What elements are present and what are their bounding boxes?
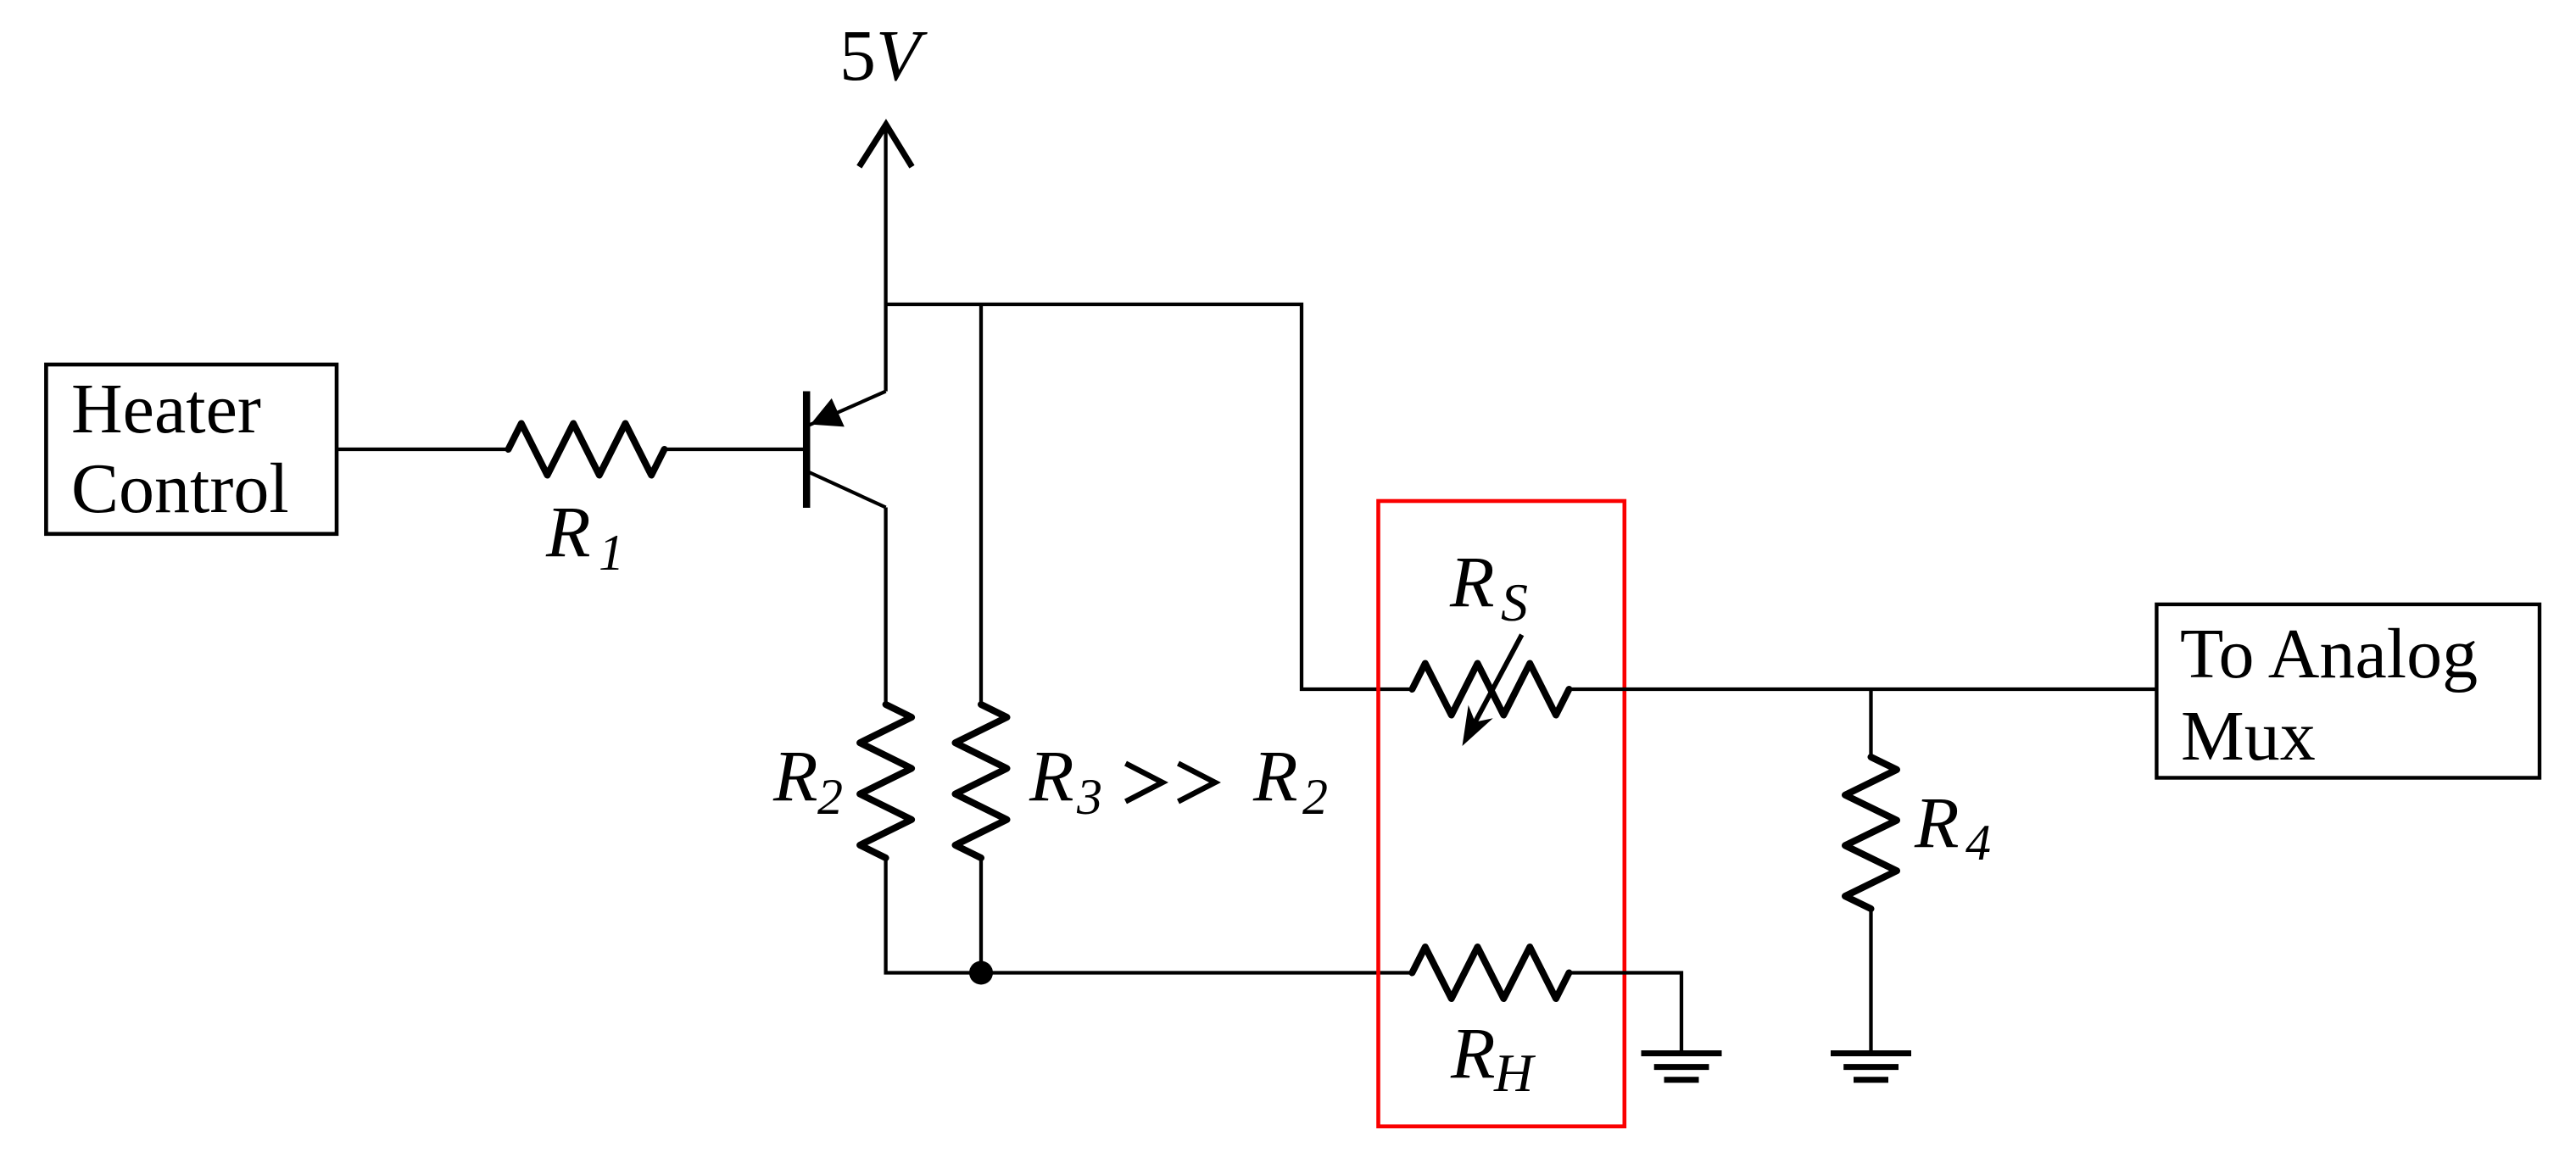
svg-text:Heater: Heater [71, 370, 261, 448]
wire box to R1 [337, 448, 509, 451]
To Analog Mux box [2156, 604, 2540, 778]
label >> chevrons [1126, 764, 1216, 802]
wire RS right to analog mux [1569, 688, 2156, 691]
node junction dot [969, 961, 993, 985]
svg-text:2: 2 [817, 769, 843, 825]
svg-text:R: R [772, 735, 818, 816]
svg-text:R: R [1450, 1012, 1496, 1094]
svg-text:Mux: Mux [2181, 697, 2316, 776]
svg-text:R: R [545, 491, 591, 572]
resistor RS (variable) [1412, 664, 1569, 715]
wire R3 bottom lead [979, 858, 983, 973]
Heater Control box [46, 365, 337, 534]
wire R4 bottom lead [1869, 909, 1872, 1050]
transistor Q1 collector diagonal [808, 472, 886, 508]
svg-text:S: S [1501, 572, 1528, 632]
ground (R4) [1831, 1054, 1911, 1080]
wire R2 bottom lead and bottom horizontal to RH [886, 858, 1413, 973]
red sensor outline box [1379, 501, 1625, 1127]
resistor RH [1412, 947, 1569, 999]
svg-text:To Analog: To Analog [2180, 615, 2478, 693]
transistor Q1 emitter arrow (PNP) [811, 398, 845, 427]
ground (RH) [1642, 1054, 1722, 1080]
resistor R3 [956, 704, 1007, 858]
power 5V supply arrow [859, 125, 912, 167]
resistor R2 [860, 704, 912, 858]
svg-text:R: R [1914, 782, 1960, 863]
resistor R4 [1845, 757, 1897, 909]
wire RH right lead to ground [1569, 973, 1681, 1051]
svg-text:5V: 5V [839, 14, 928, 96]
wire top horizontal from 5V line down to RS [886, 304, 1413, 689]
wire collector vertical to R2 [884, 508, 887, 705]
wire R1 to base [665, 448, 804, 451]
wire R4 top lead [1869, 689, 1872, 757]
RS wiper arrow [1474, 635, 1522, 725]
wire R3 branch vertical [979, 304, 983, 704]
svg-text:4: 4 [1965, 815, 1991, 871]
svg-text:Control: Control [71, 449, 289, 528]
transistor Q1 base bar [803, 392, 811, 509]
transistor Q1 emitter diagonal [808, 392, 886, 426]
svg-text:R: R [1449, 541, 1495, 622]
resistor R1 [509, 424, 665, 476]
svg-text:H: H [1493, 1043, 1536, 1103]
svg-text:1: 1 [599, 525, 624, 581]
wire emitter vertical to 5V arrow [884, 125, 887, 392]
